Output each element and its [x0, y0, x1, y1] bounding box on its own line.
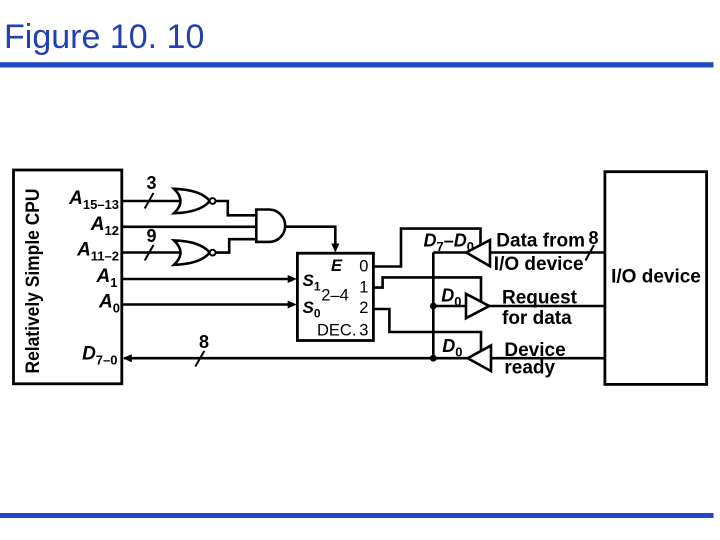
- svg-text:8: 8: [588, 228, 598, 248]
- svg-text:DEC.: DEC.: [317, 321, 356, 339]
- svg-text:9: 9: [146, 226, 156, 246]
- svg-text:Figure 10. 10: Figure 10. 10: [4, 18, 204, 56]
- AND gate: [256, 210, 285, 242]
- wire buffer1 output to bus: [433, 251, 466, 254]
- decoder U1 box: [297, 253, 373, 340]
- wire A0 to decoder S0: [122, 303, 289, 306]
- bottom rule: [0, 513, 714, 518]
- wire buffer3 input from I/O device: [491, 357, 605, 360]
- node junction buffer2 input: [430, 303, 437, 310]
- bus slash on D7-0: [195, 351, 204, 367]
- wire AND output to decoder E: [285, 227, 335, 245]
- wire A1 to decoder S1: [122, 278, 289, 281]
- svg-text:ready: ready: [504, 358, 555, 379]
- svg-text:2–4: 2–4: [321, 287, 349, 305]
- arrowhead into S1: [288, 275, 297, 283]
- svg-text:2: 2: [359, 299, 368, 317]
- svg-text:Request: Request: [502, 288, 578, 309]
- bus slash on A15-13: [145, 193, 154, 209]
- NOR gate 2 bubble: [210, 250, 216, 256]
- svg-text:I/O device: I/O device: [611, 267, 701, 288]
- wire A11-2 to NOR2: [122, 251, 182, 254]
- wire A12 to AND: [122, 226, 257, 229]
- svg-text:D7–0: D7–0: [82, 344, 117, 368]
- wire A15-13 to NOR1: [122, 200, 182, 203]
- svg-text:A15–13: A15–13: [68, 188, 119, 212]
- bus slash on A11-2: [145, 245, 154, 261]
- svg-text:A11–2: A11–2: [76, 240, 119, 264]
- svg-text:for data: for data: [502, 308, 572, 329]
- arrowhead into S0: [288, 301, 297, 309]
- NOR gate 1: [174, 189, 210, 213]
- NOR gate 2: [174, 240, 210, 264]
- CPU block: [14, 170, 122, 384]
- svg-text:A1: A1: [96, 266, 118, 290]
- svg-text:S0: S0: [303, 298, 321, 321]
- svg-text:D0: D0: [442, 336, 462, 360]
- svg-text:1: 1: [359, 279, 368, 297]
- wire decoder out2 to buffer3 enable: [373, 309, 481, 351]
- svg-text:I/O device: I/O device: [494, 254, 584, 275]
- wire decoder out1 to buffer2 enable: [373, 277, 481, 301]
- arrowhead into CPU D7-0: [123, 354, 132, 362]
- NOR gate 1 bubble: [210, 198, 216, 204]
- bus slash on buffer1 input: [586, 245, 595, 261]
- wire NOR1 output to AND input: [216, 201, 257, 215]
- I/O device block: [605, 172, 707, 385]
- wire buffer1 input from I/O device: [490, 251, 605, 254]
- svg-text:0: 0: [359, 257, 368, 275]
- svg-text:D0: D0: [441, 286, 461, 310]
- wire buffer2 output to I/O device: [489, 305, 605, 308]
- title rule: [0, 62, 714, 67]
- svg-text:A0: A0: [98, 292, 120, 316]
- wire NOR2 output to AND input: [216, 239, 257, 252]
- wire decoder out0 to buffer1 enable: [373, 229, 480, 267]
- svg-text:E: E: [331, 257, 343, 275]
- svg-text:D7–D0: D7–D0: [424, 231, 474, 255]
- arrowhead into decoder E: [331, 244, 339, 253]
- svg-text:S1: S1: [303, 271, 321, 294]
- buffer U2 (D7-D0, points left): [466, 240, 490, 266]
- wire data bus D7-0 horizontal: [124, 357, 468, 360]
- buffer U3 (D0, points right): [466, 294, 489, 318]
- svg-text:3: 3: [146, 173, 156, 193]
- svg-text:Data from: Data from: [496, 230, 585, 251]
- buffer U4 (D0, points left): [468, 346, 491, 372]
- node junction D bus: [430, 355, 437, 362]
- svg-text:8: 8: [199, 332, 209, 352]
- svg-text:Relatively Simple CPU: Relatively Simple CPU: [22, 189, 44, 374]
- wire buffer2 input from bus: [433, 305, 466, 308]
- wire data bus vertical: [432, 253, 435, 359]
- svg-text:3: 3: [359, 321, 368, 339]
- svg-text:A12: A12: [90, 214, 119, 238]
